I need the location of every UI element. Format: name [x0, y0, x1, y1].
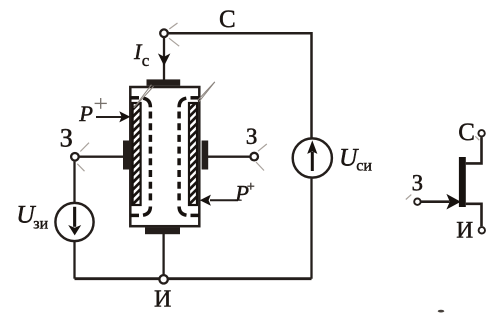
svg-text:с: с [142, 51, 150, 70]
svg-text:С: С [458, 119, 475, 146]
svg-text:И: И [456, 218, 473, 244]
svg-text:З: З [412, 171, 424, 196]
svg-text:З: З [60, 122, 73, 152]
svg-text:P: P [234, 180, 249, 205]
svg-text:З: З [246, 124, 258, 150]
svg-text:С: С [219, 6, 236, 33]
svg-text:И: И [154, 286, 171, 312]
svg-text:зи: зи [33, 216, 48, 233]
svg-text:си: си [356, 158, 372, 175]
svg-text:P: P [78, 101, 93, 126]
